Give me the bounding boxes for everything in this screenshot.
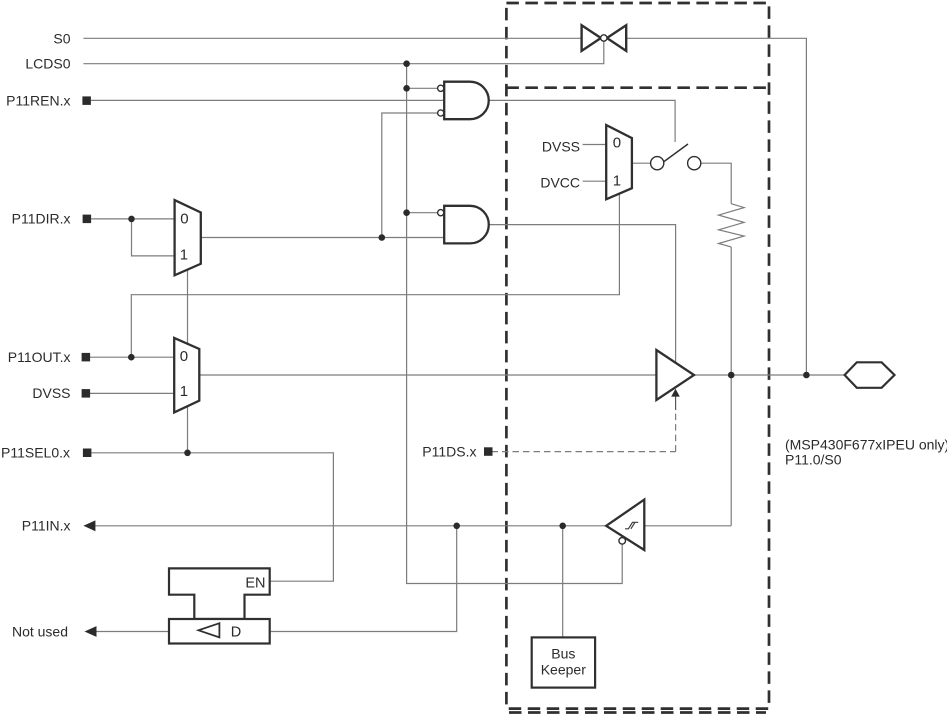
wire buffer output to pad	[694, 374, 845, 376]
svg-text:Not used: Not used	[12, 623, 68, 639]
junction NAND1 top	[403, 85, 410, 92]
wire NAND1 top input	[407, 87, 438, 89]
wire DVCC stub to mux3	[583, 180, 607, 182]
terminal P11OUT.x	[82, 353, 91, 362]
wire P11IN.x from schmitt output	[95, 525, 606, 527]
NAND1 input bubble bottom	[438, 110, 444, 116]
wire S0 left segment	[83, 37, 581, 39]
junction pad resistor	[728, 372, 735, 379]
schmitt enable bubble	[619, 538, 626, 545]
svg-text:Keeper: Keeper	[541, 662, 586, 678]
svg-text:Bus: Bus	[551, 646, 575, 662]
junction NAND2 top	[403, 209, 410, 216]
output buffer driver	[656, 350, 694, 400]
svg-text:DVCC: DVCC	[540, 175, 580, 191]
wire P11DIR.x to mux	[91, 218, 175, 220]
wire bus keeper to P11IN node	[562, 526, 564, 638]
wire P11DS.x dashed control	[492, 409, 676, 452]
svg-text:EN: EN	[245, 576, 265, 592]
junction DIR line	[379, 234, 386, 241]
wire DVSS stub to mux3	[583, 144, 607, 146]
mux M1 P11DIR 0/1	[175, 200, 201, 275]
wire P11OUT branch to DVSS/DVCC mux select	[131, 194, 619, 358]
svg-text:DVSS: DVSS	[542, 138, 580, 154]
svg-text:1: 1	[613, 172, 621, 189]
svg-text:D: D	[231, 624, 241, 640]
latch EN section	[169, 568, 270, 619]
junction LCDS0	[403, 60, 410, 67]
resistor R pullup zigzag	[719, 204, 745, 247]
wire P11OUT.x to mux2	[90, 356, 174, 358]
wire mux select mux1 to mux2	[187, 270, 189, 344]
junction P11DIR	[128, 216, 135, 223]
junction P11SEL0	[184, 450, 191, 457]
dashed boundary inner top divider	[506, 86, 769, 89]
mux M3 DVSS/DVCC 0/1	[606, 125, 632, 199]
arrow Not used output	[85, 626, 97, 637]
dashed boundary box outer	[506, 3, 769, 709]
svg-text:P11DS.x: P11DS.x	[422, 443, 476, 459]
svg-text:P11OUT.x: P11OUT.x	[8, 349, 71, 365]
svg-text:(MSP430F677xIPEU only): (MSP430F677xIPEU only)	[785, 437, 947, 453]
wire LCDS0 to transmission gate control	[83, 42, 603, 64]
arrowhead P11DS into buffer	[671, 389, 680, 397]
svg-text:LCDS0: LCDS0	[25, 56, 70, 72]
pad hexagon P11.0/S0	[845, 362, 895, 388]
switch lever	[663, 144, 688, 162]
svg-text:P11DIR.x: P11DIR.x	[12, 211, 71, 227]
svg-text:S0: S0	[53, 31, 70, 47]
junction P11IN buskeeper	[559, 523, 566, 530]
arrow P11IN.x output	[83, 520, 95, 531]
wire NAND2 output to buffer enable	[489, 225, 676, 363]
latch clock triangle	[199, 623, 220, 637]
schmitt hysteresis symbol	[625, 522, 638, 529]
svg-text:DVSS: DVSS	[32, 385, 70, 401]
wire mux2 output to output buffer	[199, 374, 656, 376]
dashed boundary inner bottom edge	[509, 711, 766, 714]
NAND gate U2 (direction)	[444, 206, 489, 244]
wire mux2 select to P11SEL0	[187, 406, 189, 453]
wire mux3 output to switch	[632, 162, 651, 164]
mux M2 P11OUT 0/1	[174, 338, 199, 413]
wire mux1 output to NAND2	[201, 237, 444, 239]
terminal P11SEL0.x	[83, 449, 92, 458]
svg-text:0: 0	[180, 348, 188, 365]
wire DVSS to mux2 input 1	[90, 392, 174, 394]
wire resistor to pad node vertical	[730, 247, 732, 526]
latch D section	[169, 619, 270, 644]
wire P11SEL0.x to latch EN	[91, 453, 333, 581]
svg-text:1: 1	[180, 383, 188, 400]
wire S0 right segment to pad node	[626, 38, 806, 375]
terminal DVSS	[82, 389, 91, 398]
wire latch D output to P11IN node	[270, 526, 457, 632]
junction pad S0	[803, 372, 810, 379]
svg-text:P11.0/S0: P11.0/S0	[785, 452, 842, 468]
NAND2 input bubble top	[438, 210, 444, 216]
transmission gate S0	[582, 25, 627, 51]
wire switch to resistor	[701, 163, 731, 204]
junction P11IN latch	[453, 523, 460, 530]
terminal P11REN.x	[82, 96, 91, 105]
wire NAND1 bottom input from DIR line	[382, 113, 438, 238]
wire NAND2 top input	[407, 212, 438, 214]
svg-text:P11SEL0.x: P11SEL0.x	[1, 445, 70, 461]
svg-text:1: 1	[180, 247, 188, 264]
terminal P11DIR.x	[83, 215, 92, 224]
wire Not used to latch	[96, 631, 169, 633]
svg-text:0: 0	[613, 134, 621, 151]
svg-text:P11REN.x: P11REN.x	[6, 92, 70, 108]
schmitt trigger input buffer	[606, 500, 644, 550]
NAND gate U1 (REN/LCD)	[444, 82, 489, 120]
wire schmitt input from pad node	[644, 525, 731, 527]
wire P11DIR branch to mux input 1	[132, 219, 175, 256]
junction P11OUT	[128, 354, 135, 361]
bus keeper box	[532, 637, 595, 687]
switch contact left	[651, 157, 664, 170]
wire P11REN.x to NAND1	[91, 99, 444, 101]
terminal P11DS.x	[484, 447, 493, 456]
svg-text:P11IN.x: P11IN.x	[22, 518, 71, 534]
svg-text:0: 0	[180, 210, 188, 227]
switch contact right	[688, 157, 701, 170]
NAND1 input bubble top	[438, 85, 444, 91]
wire NAND1 output to switch control	[489, 100, 675, 142]
wire LCDS0 vertical trunk to schmitt enable	[407, 64, 623, 584]
